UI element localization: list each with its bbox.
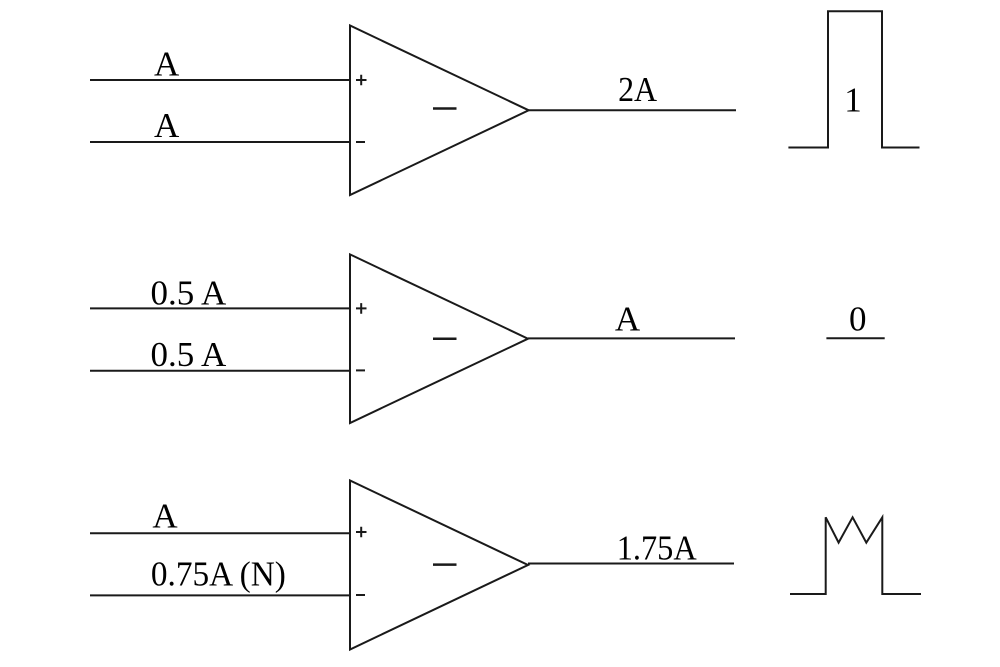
svg-text:0: 0 xyxy=(849,300,867,339)
svg-text:A: A xyxy=(154,106,180,145)
svg-text:A: A xyxy=(154,45,180,84)
svg-text:0.5 A: 0.5 A xyxy=(150,335,227,374)
svg-text:0.75A (N): 0.75A (N) xyxy=(151,555,286,594)
svg-text:A: A xyxy=(615,300,641,339)
svg-text:A: A xyxy=(152,497,178,536)
svg-text:2A: 2A xyxy=(618,70,658,109)
svg-text:1: 1 xyxy=(844,81,862,120)
svg-text:1.75A: 1.75A xyxy=(617,529,698,568)
svg-text:0.5 A: 0.5 A xyxy=(150,274,227,313)
